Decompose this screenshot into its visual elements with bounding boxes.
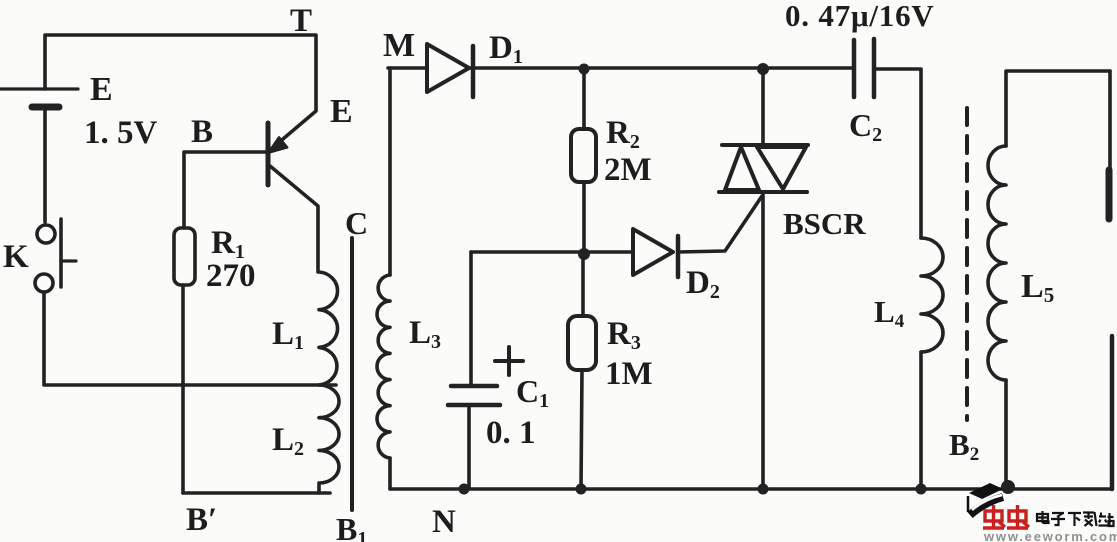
watermark site name chars [1037, 511, 1114, 526]
svg-text:B′: B′ [186, 502, 217, 538]
wire top-left loop [45, 35, 316, 110]
transistor emitter arrowhead [268, 137, 288, 153]
svg-text:www.eeworm.com: www.eeworm.com [983, 529, 1117, 542]
diode D2 cathode bar [676, 236, 681, 277]
triac BSCR right triangle [757, 147, 806, 189]
switch K bottom contact [35, 274, 53, 292]
junction top bus left [579, 64, 590, 75]
wire L5 top [1006, 71, 1110, 146]
inductor L3 [377, 275, 390, 458]
svg-text:C: C [345, 205, 368, 241]
watermark logo cap [968, 483, 1003, 515]
inductor L4 [921, 238, 943, 352]
wire L5 bottom [1004, 380, 1008, 488]
svg-text:L5: L5 [1021, 268, 1054, 307]
battery E long plate [0, 87, 78, 90]
junction bottom L5 [1001, 480, 1015, 494]
wire B' bottom horizontal [183, 491, 330, 495]
wire mid horizontal [471, 250, 633, 254]
wire C1 to bottom bus [467, 405, 471, 489]
svg-text:E: E [330, 93, 353, 130]
transistor collector lead [270, 166, 318, 272]
wire base node B [184, 152, 266, 228]
capacitor C1 top plate [451, 384, 497, 389]
svg-text:L3: L3 [409, 315, 441, 353]
svg-text:B2: B2 [949, 427, 979, 465]
C1 polarity plus sign [495, 347, 523, 375]
triac BSCR bottom bar [719, 190, 807, 194]
wire triac anode stem [761, 69, 765, 145]
wire switch to L1/L2 tap [44, 292, 336, 385]
triac BSCR left triangle [725, 147, 759, 190]
watermark chongchong chars [983, 505, 1029, 528]
wire triac cathode stem [761, 192, 765, 489]
battery E short plate [32, 104, 59, 111]
diode D2 triangle [633, 229, 673, 275]
junction bottom R3 [576, 484, 587, 495]
wire mid down to C1 [469, 252, 473, 386]
svg-text:270: 270 [206, 258, 256, 294]
svg-text:2M: 2M [604, 152, 652, 188]
wire C2 to L4 [876, 69, 921, 238]
switch K actuator bar [59, 219, 63, 287]
svg-text:R3: R3 [607, 316, 641, 354]
svg-text:1M: 1M [605, 356, 653, 392]
svg-text:D2: D2 [686, 265, 720, 303]
svg-text:1. 5V: 1. 5V [84, 115, 158, 151]
switch K actuator stub [61, 259, 76, 262]
svg-text:L2: L2 [272, 422, 304, 460]
output terminal lower pin [1110, 336, 1115, 489]
output terminal upper pin [1108, 71, 1112, 219]
output terminal upper pin tip [1106, 170, 1113, 219]
svg-text:E: E [90, 71, 113, 108]
transformer B1 core [350, 238, 354, 510]
svg-text:L1: L1 [272, 316, 304, 354]
wire R3 upper stem [581, 253, 585, 316]
svg-text:D1: D1 [489, 30, 523, 68]
svg-text:C2: C2 [849, 107, 882, 146]
wire R2 upper stem [582, 68, 586, 129]
junction bottom C1 [459, 484, 470, 495]
triac BSCR top bar [722, 143, 808, 147]
wire D2 to gate [678, 196, 762, 252]
transistor emitter lead [270, 111, 316, 150]
switch K top contact [37, 225, 55, 243]
resistor R1 body [174, 228, 195, 285]
wire R2 lower stem [582, 182, 586, 253]
junction bottom triac [758, 484, 769, 495]
svg-text:0. 1: 0. 1 [486, 415, 536, 451]
wire top bus [469, 66, 854, 70]
resistor R3 body [568, 316, 596, 370]
capacitor C2 right plate [872, 39, 877, 97]
wire battery to switch [43, 107, 47, 222]
capacitor C2 left plate [852, 40, 857, 97]
diode D1 triangle [427, 44, 469, 92]
wire bottom bus N [390, 487, 1112, 491]
svg-text:R2: R2 [606, 115, 640, 153]
svg-text:0. 47μ/16V: 0. 47μ/16V [785, 0, 935, 33]
capacitor C1 bottom plate [448, 403, 500, 408]
svg-text:M: M [383, 27, 415, 64]
svg-text:K: K [3, 239, 29, 275]
svg-text:T: T [290, 3, 312, 39]
svg-text:L4: L4 [874, 294, 905, 332]
svg-text:N: N [432, 504, 456, 540]
diode D1 cathode bar [471, 46, 476, 97]
svg-text:B: B [191, 114, 213, 150]
wire R3 lower stem [581, 370, 582, 489]
junction bottom L4 [916, 484, 927, 495]
wire M terminal [388, 66, 427, 70]
svg-text:C1: C1 [516, 373, 549, 412]
wire R1 to B' [181, 285, 185, 493]
wire M down to L3 [388, 68, 392, 275]
wire L4 to bottom bus [919, 352, 923, 489]
transformer B2 core dashed [965, 108, 969, 420]
svg-text:BSCR: BSCR [783, 206, 866, 241]
resistor R2 body [571, 129, 596, 182]
junction mid wire [578, 248, 590, 260]
inductor L1 [319, 272, 338, 385]
wire L3 to N [388, 458, 392, 489]
inductor L2 [319, 385, 339, 493]
inductor L5 [988, 146, 1006, 380]
junction top bus right [757, 63, 769, 75]
svg-text:B1: B1 [336, 511, 367, 542]
transistor bar [266, 123, 271, 185]
